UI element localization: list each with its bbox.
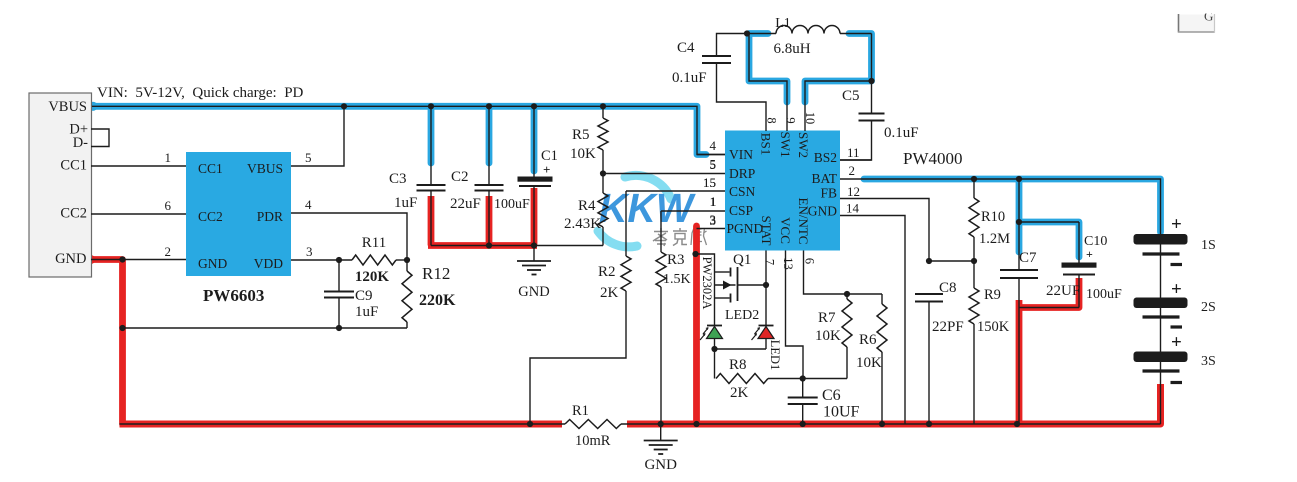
svg-text:C7: C7: [1019, 250, 1037, 266]
svg-text:9: 9: [784, 117, 798, 123]
svg-text:150K: 150K: [977, 319, 1010, 335]
svg-text:SW1: SW1: [778, 132, 793, 158]
op-amp U1 PW4000: [725, 131, 963, 251]
wire BAT: [840, 179, 1161, 234]
node bus junction C8: [926, 421, 932, 427]
wire CC2: [91, 198, 186, 214]
node ground return left: [119, 325, 125, 331]
wire input cap red bus: [428, 242, 537, 249]
watermark logo arc: [598, 175, 671, 246]
watermark text KKW: [599, 185, 696, 231]
svg-text:BS2: BS2: [814, 150, 837, 165]
ui fragment top-right: [1178, 9, 1215, 33]
svg-text:PW2302A: PW2302A: [700, 257, 714, 310]
svg-text:R7: R7: [818, 310, 836, 326]
svg-text:VDD: VDD: [254, 256, 283, 271]
inductor L1: [747, 16, 872, 57]
svg-text:3: 3: [710, 213, 717, 228]
svg-text:10UF: 10UF: [823, 404, 860, 421]
wire pin3 VDD: [291, 244, 352, 260]
wire DRP pin5: [603, 157, 725, 174]
capacitor C4: [672, 34, 766, 132]
node VBUS junctions: [341, 103, 606, 109]
capacitor C10: [1019, 222, 1122, 308]
node C5 top: [868, 78, 874, 84]
svg-text:C2: C2: [451, 169, 469, 185]
node bus junction C6: [800, 421, 806, 427]
svg-text:FB: FB: [820, 186, 837, 201]
resistor R8: [715, 349, 803, 401]
svg-text:PGND: PGND: [727, 221, 764, 236]
svg-text:10mR: 10mR: [575, 433, 611, 449]
svg-text:3: 3: [306, 244, 313, 259]
svg-text:VBUS: VBUS: [48, 99, 87, 115]
svg-text:5: 5: [710, 157, 717, 172]
svg-text:1.5K: 1.5K: [663, 272, 691, 287]
node C1 bottom: [531, 242, 537, 248]
svg-text:1: 1: [710, 194, 717, 209]
node C2 bottom: [486, 242, 492, 248]
svg-text:PW6603: PW6603: [203, 286, 264, 305]
svg-text:R11: R11: [362, 235, 386, 251]
resistor R11: [352, 235, 407, 285]
wire CSP pin1: [661, 194, 725, 211]
svg-text:R5: R5: [572, 127, 590, 143]
svg-text:3S: 3S: [1201, 354, 1216, 369]
svg-text:2.43K: 2.43K: [564, 216, 601, 232]
svg-text:GND: GND: [518, 284, 549, 300]
svg-text:0.1uF: 0.1uF: [884, 125, 919, 141]
wire PGND red drop: [693, 226, 700, 424]
wire C10 gnd link: [1019, 307, 1079, 309]
svg-text:100uF: 100uF: [494, 197, 530, 212]
connector CN1 USB-C port: [29, 93, 92, 277]
node R11 right: [404, 257, 410, 263]
wire PGND pin3: [697, 212, 726, 229]
wire C3 red drop: [428, 196, 435, 246]
svg-text:VIN: 5V-12V, Quick charge:: VIN: 5V-12V, Quick charge: PD: [97, 85, 304, 101]
svg-text:GND: GND: [198, 256, 227, 271]
wire C2 red drop: [486, 196, 493, 246]
svg-text:15: 15: [703, 175, 716, 190]
wire ground red bus left: [120, 421, 563, 428]
svg-text:EN/NTC: EN/NTC: [796, 198, 811, 245]
resistor R6: [856, 294, 887, 424]
wire C1 blue drop: [531, 109, 538, 171]
svg-text:220K: 220K: [419, 292, 456, 309]
svg-text:D-: D-: [73, 135, 88, 151]
wire ground red bus right: [627, 384, 1161, 424]
svg-text:L1: L1: [775, 16, 791, 31]
wire SW2 loop: [805, 34, 872, 132]
wire C7 C10 blue branch: [1019, 179, 1079, 257]
svg-text:CC2: CC2: [198, 209, 223, 224]
wire GND red highlight at connector: [87, 255, 123, 424]
label U1 pin numbers left: [703, 138, 717, 228]
label U1 pin numbers bottom: [763, 257, 817, 270]
svg-text:R10: R10: [981, 209, 1005, 225]
wire VCC pin13: [786, 251, 804, 379]
svg-text:CSP: CSP: [729, 203, 753, 218]
svg-text:R3: R3: [667, 252, 685, 268]
svg-text:R6: R6: [859, 332, 877, 348]
svg-text:+: +: [1171, 214, 1182, 235]
LED LED1 red: [752, 326, 783, 371]
svg-text:1uF: 1uF: [394, 195, 417, 211]
svg-text:CC2: CC2: [60, 206, 87, 222]
node C4 top: [744, 30, 750, 36]
svg-text:14: 14: [846, 201, 860, 216]
resistor R2: [530, 191, 631, 424]
svg-text:13: 13: [781, 257, 795, 270]
svg-text:R4: R4: [578, 198, 596, 214]
svg-text:5: 5: [305, 150, 312, 165]
resistor R1 shunt: [565, 403, 621, 449]
wire GND pin14: [840, 216, 905, 425]
wire input cap gnd bus: [431, 245, 603, 247]
wire L1 SW2 blue loop: [805, 34, 872, 103]
LED LED2 green: [700, 308, 759, 349]
node bus junction PGND: [693, 421, 699, 427]
svg-text:STAT: STAT: [759, 215, 774, 245]
wire C2 blue drop: [486, 109, 493, 163]
node PGND red junction: [692, 251, 698, 257]
capacitor C3: [389, 106, 446, 245]
node BAT junction R10: [971, 176, 977, 182]
wire L1 SW1 blue loop: [749, 34, 787, 103]
node EN junction: [844, 291, 850, 297]
svg-text:GND: GND: [55, 251, 86, 267]
svg-text:R12: R12: [422, 264, 450, 283]
svg-text:C8: C8: [939, 280, 957, 296]
svg-text:1: 1: [165, 150, 172, 165]
battery cell B1 1S: [1134, 214, 1216, 298]
svg-text:C3: C3: [389, 171, 407, 187]
svg-text:+: +: [1171, 332, 1182, 353]
svg-text:R2: R2: [598, 264, 616, 280]
svg-text:4: 4: [710, 138, 717, 153]
svg-text:10K: 10K: [815, 328, 841, 344]
svg-text:1uF: 1uF: [355, 304, 378, 320]
svg-text:VBUS: VBUS: [247, 161, 283, 176]
wire ground return line: [123, 327, 408, 329]
wire VIN blue end: [697, 154, 725, 156]
wire pin4 PDR: [291, 197, 407, 260]
resistor R4: [564, 174, 608, 246]
svg-text:C5: C5: [842, 88, 860, 104]
svg-text:+: +: [1171, 279, 1182, 300]
svg-text:SW2: SW2: [796, 132, 811, 158]
svg-text:1.2M: 1.2M: [979, 231, 1010, 247]
svg-text:R1: R1: [572, 403, 589, 419]
wire FB to divider: [929, 260, 974, 262]
wire LED cathode link: [715, 348, 767, 350]
svg-text:11: 11: [847, 145, 860, 160]
svg-text:C9: C9: [355, 288, 373, 304]
svg-text:2K: 2K: [730, 385, 749, 401]
wire ground bus: [120, 423, 1161, 425]
wire EN pin6: [804, 251, 883, 295]
label U1 pin numbers right: [846, 145, 860, 216]
wire FB pin12: [840, 199, 929, 262]
wire BAT blue highlight: [864, 179, 1161, 232]
svg-text:BAT: BAT: [811, 171, 837, 186]
wire D+ D- stub: [91, 129, 109, 147]
resistor R9: [969, 261, 1010, 424]
capacitor C8: [915, 280, 964, 424]
capacitor C5: [840, 81, 919, 160]
resistor R10: [969, 179, 1010, 261]
svg-text:BS1: BS1: [759, 133, 774, 155]
capacitor C6: [788, 379, 860, 425]
svg-text:Q1: Q1: [733, 252, 751, 268]
wire pin5 VBUS out: [291, 106, 344, 166]
node C9 bottom: [336, 325, 342, 331]
svg-text:7: 7: [763, 259, 777, 265]
wire C7 red drop: [1016, 300, 1023, 424]
svg-text:KKW: KKW: [599, 185, 696, 231]
capacitor C1: [494, 106, 558, 245]
svg-text:PDR: PDR: [257, 209, 283, 224]
wire VBUS: [92, 106, 725, 154]
node R11 left: [336, 257, 342, 263]
svg-text:+: +: [543, 162, 550, 177]
svg-text:C4: C4: [677, 40, 695, 56]
wire CSN pin15: [626, 175, 725, 191]
label U1 pin numbers top: [765, 112, 818, 125]
battery cell B3 3S: [1134, 332, 1216, 424]
wire SW1 loop: [749, 34, 787, 132]
svg-text:12: 12: [847, 184, 860, 199]
svg-text:22UF: 22UF: [1046, 283, 1080, 299]
node C10 branch: [1016, 219, 1022, 225]
resistor R5: [570, 106, 608, 173]
node C6 top: [800, 375, 806, 381]
node Q1 drain: [763, 282, 769, 288]
node BAT junction C7: [1016, 176, 1022, 182]
svg-text:100uF: 100uF: [1086, 287, 1122, 302]
svg-text:+: +: [1086, 247, 1093, 261]
svg-text:6: 6: [803, 258, 817, 264]
svg-text:CC1: CC1: [198, 161, 223, 176]
resistor R7: [815, 294, 852, 379]
svg-text:PW4000: PW4000: [903, 149, 963, 168]
svg-text:DRP: DRP: [729, 166, 755, 181]
wire R7 bottom link: [803, 378, 847, 380]
svg-text:1S: 1S: [1201, 238, 1216, 253]
wire GND to pin2: [91, 244, 186, 260]
node bus junction C7: [1014, 421, 1020, 427]
svg-text:R8: R8: [729, 357, 747, 373]
node GND junction: [119, 256, 125, 262]
ground GND2: [644, 424, 678, 473]
wire C3 blue drop: [428, 109, 435, 163]
node DRP junction: [600, 170, 606, 176]
svg-text:22PF: 22PF: [932, 319, 964, 335]
wire VBUS blue highlight: [88, 102, 706, 155]
wire CC1: [91, 150, 186, 166]
capacitor C2: [450, 106, 504, 245]
svg-text:6: 6: [165, 198, 172, 213]
wire STAT pin7: [765, 251, 767, 326]
resistor R3: [656, 211, 691, 424]
svg-text:6.8uH: 6.8uH: [773, 41, 810, 57]
svg-text:GND: GND: [644, 457, 677, 473]
svg-text:LED2: LED2: [725, 308, 759, 323]
node FB divider: [926, 258, 977, 264]
wire C10 red drop: [1019, 278, 1079, 308]
svg-text:R9: R9: [984, 287, 1001, 303]
capacitor C7: [1000, 179, 1080, 424]
battery cell B2 2S: [1134, 279, 1216, 352]
svg-text:LED1: LED1: [768, 340, 782, 371]
svg-text:CC1: CC1: [60, 158, 87, 174]
svg-text:2: 2: [849, 163, 856, 178]
svg-text:10K: 10K: [570, 146, 596, 162]
ground GND1: [517, 246, 551, 301]
capacitor C9: [324, 260, 378, 328]
svg-text:VIN: VIN: [729, 147, 753, 162]
transistor Q1 PW2302A: [696, 252, 767, 326]
node bus junction R3: [658, 421, 664, 427]
svg-text:CSN: CSN: [729, 184, 756, 199]
watermark text kuakewei: [653, 228, 707, 246]
svg-text:120K: 120K: [355, 269, 390, 285]
wire BS2 pin11: [840, 159, 872, 161]
svg-text:22uF: 22uF: [450, 196, 481, 212]
svg-text:2K: 2K: [600, 285, 619, 301]
node bus junction R6: [879, 421, 885, 427]
label VIN note: [97, 85, 304, 101]
resistor R12: [402, 260, 456, 328]
svg-text:0.1uF: 0.1uF: [672, 70, 707, 86]
svg-text:C6: C6: [822, 387, 841, 404]
svg-text:2S: 2S: [1201, 300, 1216, 315]
wire C1 red drop: [531, 188, 538, 246]
svg-text:4: 4: [305, 197, 312, 212]
svg-text:GND: GND: [808, 204, 837, 219]
node bus junction R2: [527, 421, 533, 427]
svg-text:10K: 10K: [856, 355, 882, 371]
svg-text:2: 2: [165, 244, 172, 259]
svg-text:VCC: VCC: [778, 217, 793, 244]
op-amp U2 PW6603: [186, 152, 291, 305]
node LED2 bottom: [711, 346, 717, 352]
